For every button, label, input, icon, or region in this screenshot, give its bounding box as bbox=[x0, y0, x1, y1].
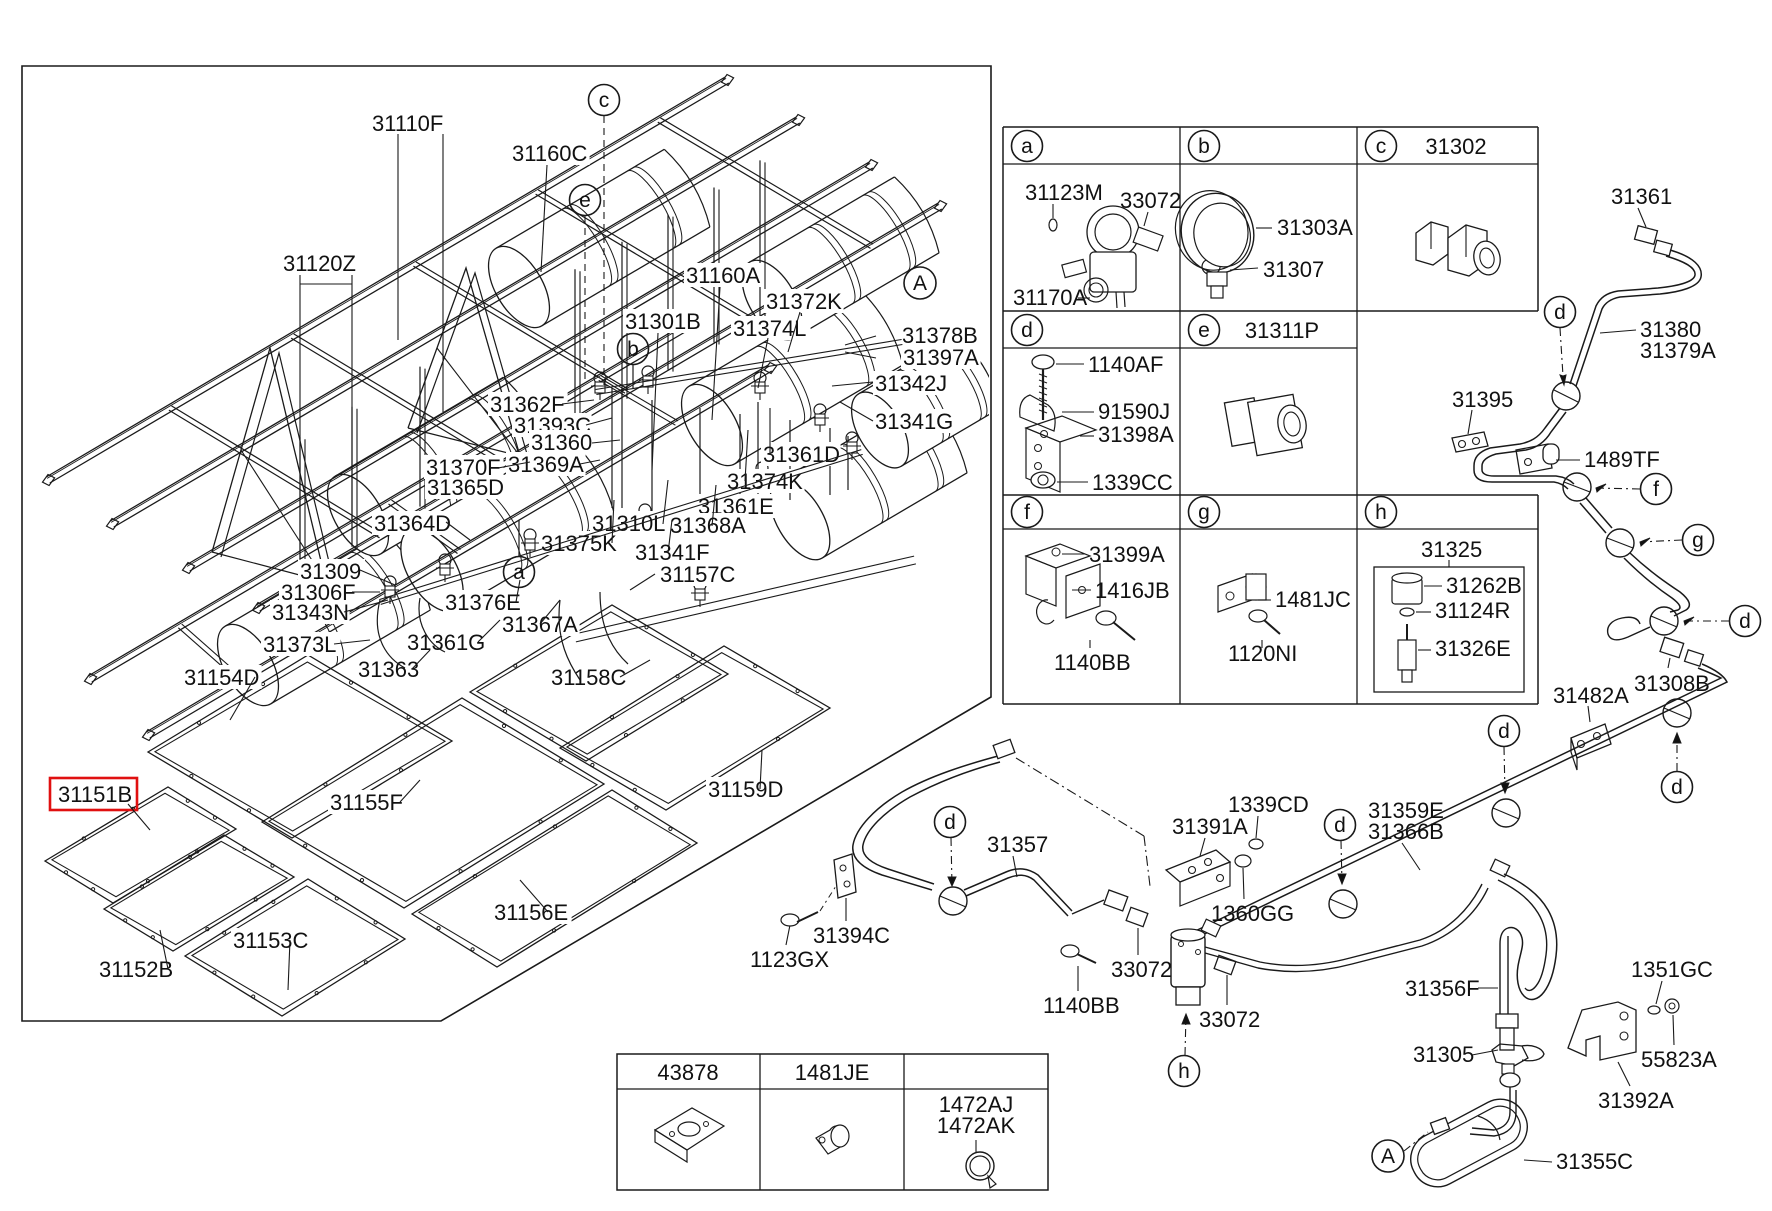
svg-text:31305: 31305 bbox=[1413, 1042, 1474, 1067]
svg-text:g: g bbox=[1198, 501, 1210, 524]
svg-text:31372K: 31372K bbox=[766, 289, 842, 314]
svg-text:31356F: 31356F bbox=[1405, 976, 1480, 1001]
svg-text:e: e bbox=[1198, 319, 1210, 342]
svg-text:31110F: 31110F bbox=[372, 111, 443, 136]
svg-text:1140BB: 1140BB bbox=[1043, 993, 1120, 1018]
svg-text:31342J: 31342J bbox=[875, 371, 947, 396]
svg-text:31151B: 31151B bbox=[58, 782, 132, 807]
svg-text:31397A: 31397A bbox=[903, 345, 979, 370]
svg-text:31158C: 31158C bbox=[551, 665, 627, 690]
svg-text:a: a bbox=[513, 561, 525, 584]
svg-text:d: d bbox=[1554, 301, 1566, 324]
svg-text:33072: 33072 bbox=[1120, 188, 1181, 213]
svg-text:h: h bbox=[1178, 1060, 1190, 1083]
svg-text:c: c bbox=[1376, 135, 1387, 158]
svg-text:31120Z: 31120Z bbox=[283, 251, 356, 276]
svg-text:31363: 31363 bbox=[358, 657, 419, 682]
svg-text:h: h bbox=[1375, 501, 1387, 524]
svg-text:31366B: 31366B bbox=[1368, 819, 1444, 844]
svg-text:31160A: 31160A bbox=[686, 263, 761, 288]
svg-text:31311P: 31311P bbox=[1245, 318, 1319, 343]
svg-text:d: d bbox=[1498, 720, 1510, 743]
svg-text:31373L: 31373L bbox=[263, 632, 336, 657]
svg-text:31157C: 31157C bbox=[660, 562, 736, 587]
svg-text:55823A: 55823A bbox=[1641, 1047, 1717, 1072]
svg-text:31301B: 31301B bbox=[625, 309, 701, 334]
svg-text:1339CC: 1339CC bbox=[1092, 470, 1173, 495]
svg-text:31170A: 31170A bbox=[1013, 285, 1088, 310]
svg-text:1123GX: 1123GX bbox=[750, 947, 829, 972]
svg-text:1481JE: 1481JE bbox=[795, 1060, 870, 1085]
svg-text:33072: 33072 bbox=[1111, 957, 1172, 982]
svg-text:31307: 31307 bbox=[1263, 257, 1324, 282]
svg-text:31326E: 31326E bbox=[1435, 636, 1511, 661]
svg-text:31154D: 31154D bbox=[184, 665, 259, 690]
svg-text:d: d bbox=[1334, 814, 1346, 837]
svg-text:31155F: 31155F bbox=[330, 790, 403, 815]
svg-text:31398A: 31398A bbox=[1098, 422, 1174, 447]
svg-text:1472AK: 1472AK bbox=[937, 1113, 1016, 1138]
svg-text:d: d bbox=[1739, 610, 1751, 633]
svg-text:b: b bbox=[1198, 135, 1210, 158]
svg-text:1416JB: 1416JB bbox=[1095, 578, 1170, 603]
svg-text:31159D: 31159D bbox=[708, 777, 783, 802]
svg-text:1120NI: 1120NI bbox=[1228, 641, 1297, 666]
svg-text:31153C: 31153C bbox=[233, 928, 309, 953]
svg-text:31399A: 31399A bbox=[1089, 542, 1165, 567]
svg-text:31395: 31395 bbox=[1452, 387, 1513, 412]
svg-text:31160C: 31160C bbox=[512, 141, 588, 166]
svg-text:31302: 31302 bbox=[1425, 134, 1486, 159]
svg-text:31357: 31357 bbox=[987, 832, 1048, 857]
svg-text:f: f bbox=[1024, 501, 1030, 524]
svg-text:d: d bbox=[1671, 776, 1683, 799]
svg-text:31365D: 31365D bbox=[427, 475, 504, 500]
svg-text:31367A: 31367A bbox=[502, 612, 578, 637]
svg-text:31394C: 31394C bbox=[813, 923, 890, 948]
svg-text:1481JC: 1481JC bbox=[1275, 587, 1351, 612]
svg-text:31262B: 31262B bbox=[1446, 573, 1522, 598]
svg-text:1140BB: 1140BB bbox=[1054, 650, 1131, 675]
svg-text:31325: 31325 bbox=[1421, 537, 1482, 562]
svg-text:f: f bbox=[1653, 478, 1659, 501]
svg-text:1489TF: 1489TF bbox=[1584, 447, 1660, 472]
svg-text:g: g bbox=[1692, 529, 1704, 552]
svg-text:A: A bbox=[913, 272, 927, 295]
svg-text:31355C: 31355C bbox=[1556, 1149, 1633, 1174]
svg-text:31123M: 31123M bbox=[1025, 180, 1103, 205]
svg-text:91590J: 91590J bbox=[1098, 399, 1170, 424]
svg-text:d: d bbox=[1021, 319, 1033, 342]
svg-text:43878: 43878 bbox=[657, 1060, 718, 1085]
svg-text:31156E: 31156E bbox=[494, 900, 568, 925]
svg-text:1339CD: 1339CD bbox=[1228, 792, 1309, 817]
svg-text:31364D: 31364D bbox=[374, 511, 451, 536]
svg-text:31341G: 31341G bbox=[875, 409, 953, 434]
svg-text:31152B: 31152B bbox=[99, 957, 173, 982]
svg-text:31379A: 31379A bbox=[1640, 338, 1716, 363]
svg-text:31361: 31361 bbox=[1611, 184, 1672, 209]
svg-text:31303A: 31303A bbox=[1277, 215, 1353, 240]
svg-text:31124R: 31124R bbox=[1435, 598, 1510, 623]
svg-text:31391A: 31391A bbox=[1172, 814, 1248, 839]
svg-text:c: c bbox=[599, 89, 610, 112]
svg-text:a: a bbox=[1021, 135, 1033, 158]
svg-text:31361G: 31361G bbox=[407, 630, 485, 655]
svg-text:A: A bbox=[1381, 1145, 1395, 1168]
svg-text:d: d bbox=[944, 811, 956, 834]
svg-text:31374K: 31374K bbox=[727, 469, 803, 494]
svg-text:31308B: 31308B bbox=[1634, 671, 1710, 696]
svg-text:1351GC: 1351GC bbox=[1631, 957, 1713, 982]
svg-text:31361D: 31361D bbox=[763, 442, 840, 467]
svg-text:31368A: 31368A bbox=[670, 513, 746, 538]
svg-text:1360GG: 1360GG bbox=[1211, 901, 1294, 926]
svg-text:b: b bbox=[627, 338, 639, 361]
svg-text:1140AF: 1140AF bbox=[1088, 352, 1163, 377]
svg-text:31392A: 31392A bbox=[1598, 1088, 1674, 1113]
svg-text:31482A: 31482A bbox=[1553, 683, 1629, 708]
svg-text:e: e bbox=[579, 189, 591, 212]
svg-text:33072: 33072 bbox=[1199, 1007, 1260, 1032]
svg-text:31343N: 31343N bbox=[272, 600, 349, 625]
